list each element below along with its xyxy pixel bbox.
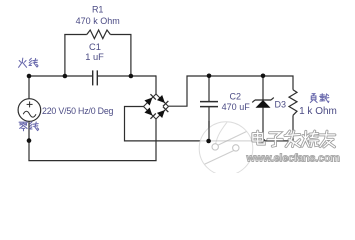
svg-text:1 k Ohm: 1 k Ohm — [299, 106, 337, 117]
svg-text:1 uF: 1 uF — [85, 52, 104, 62]
junction: D3 bottom — [261, 139, 266, 144]
svg-text:470 k Ohm: 470 k Ohm — [76, 16, 120, 26]
wire: D3 bottom lead — [262, 108, 264, 142]
bridge diode top-left — [144, 98, 152, 106]
bridge rectifier diamond — [144, 94, 157, 107]
wire: bridge right corner riser to DC positive rail — [169, 76, 294, 106]
wire: live top rail right of C1 — [97, 75, 156, 77]
svg-text:D3: D3 — [275, 99, 287, 109]
bridge diode bottom-right — [157, 110, 165, 118]
junction: R1 left — [63, 74, 68, 79]
junction: neutral node — [27, 138, 32, 143]
junction: C2 bottom — [206, 139, 211, 144]
wire: C2 bottom lead over logo — [208, 121, 210, 141]
junction: D3 top — [261, 74, 266, 79]
load resistor 1 k Ohm — [289, 90, 297, 116]
resistor R1 — [64, 34, 87, 36]
wire: AC source top lead — [28, 77, 30, 99]
bridge diode bottom-left — [144, 107, 152, 115]
zener diode D3 — [255, 99, 271, 101]
wire: R1 loop right vertical — [130, 35, 132, 77]
capacitor C2 — [200, 101, 218, 103]
wire: neutral bottom rail — [28, 160, 156, 162]
wire: R1 loop left vertical — [64, 35, 66, 77]
svg-text:R1: R1 — [92, 5, 104, 15]
wire: riser bottom rail to bridge bottom — [155, 119, 157, 161]
watermark text 电子发烧友 — [253, 131, 264, 144]
wire: load bottom lead — [292, 115, 294, 141]
wire: C2 top lead — [208, 75, 210, 101]
elecfans logo watermark — [199, 122, 253, 176]
svg-text:470 uF: 470 uF — [222, 102, 251, 112]
junction: R1 right — [129, 74, 134, 79]
junction: C2 top — [207, 74, 212, 79]
svg-text:C2: C2 — [230, 92, 242, 102]
net label 零线 — [19, 122, 27, 131]
svg-text:www.elecfans.com: www.elecfans.com — [246, 152, 341, 164]
AC source V1 220V/50Hz — [18, 99, 41, 122]
net label 火线 — [19, 58, 27, 67]
capacitor C1 — [92, 70, 94, 85]
junction: AC top node — [27, 74, 32, 79]
wire: bridge left corner to DC negative rail — [125, 107, 294, 141]
wire: D3 top lead — [262, 75, 264, 100]
svg-text:C1: C1 — [89, 42, 101, 52]
wire: C2 bottom lead — [208, 107, 210, 141]
wire: live top rail left of C1 — [29, 75, 93, 77]
svg-text:220 V/50 Hz/0 Deg: 220 V/50 Hz/0 Deg — [42, 106, 114, 116]
net label 负载 — [310, 94, 317, 103]
wire: riser to bridge top — [155, 75, 157, 94]
bridge diode top-right — [157, 95, 165, 103]
wire: AC source bottom lead — [28, 121, 30, 160]
